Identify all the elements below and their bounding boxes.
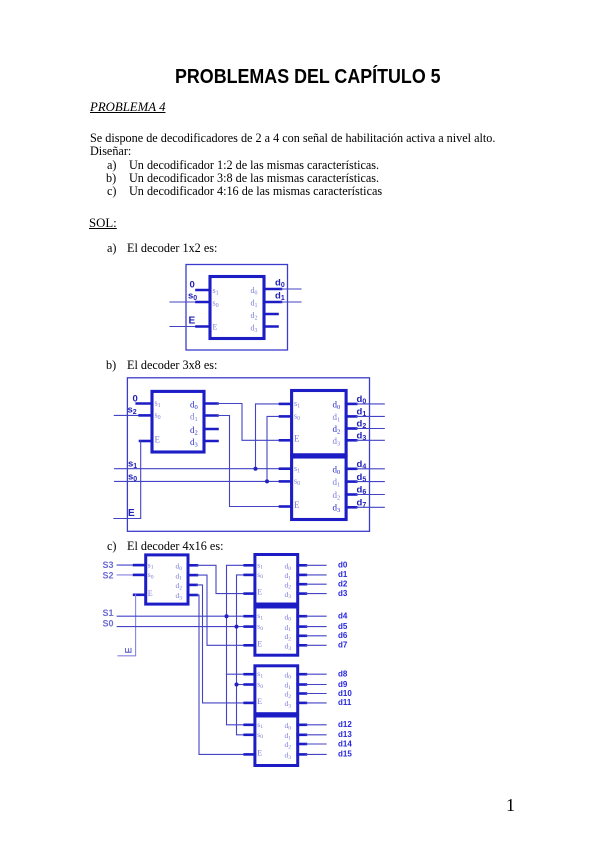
list item c xyxy=(107,184,116,199)
U2 pin s1 stub xyxy=(137,402,152,405)
wire S1 vertical tap xyxy=(227,565,245,725)
U6 pin d0 stub xyxy=(298,564,306,567)
U3 pin d0 stub xyxy=(346,403,356,406)
U7 pin s1 stub xyxy=(245,615,255,618)
U4 pin E stub xyxy=(280,505,292,508)
wire output d6 xyxy=(306,635,326,637)
decoder U5 body xyxy=(146,555,188,604)
svg-text:0: 0 xyxy=(190,280,195,291)
U9 pin d0 stub xyxy=(298,723,306,726)
U9 pin d1 stub xyxy=(298,733,306,736)
U8 pin s1 stub xyxy=(245,673,255,676)
U9 pin d3 stub xyxy=(298,753,306,756)
svg-text:S1: S1 xyxy=(103,608,114,618)
wire output d6 xyxy=(356,494,384,496)
wire s0 input xyxy=(170,301,197,303)
wire d1 output xyxy=(281,301,301,303)
decoder U7 body xyxy=(255,607,298,655)
paragraph line 2 xyxy=(90,144,131,159)
U8 pin E stub xyxy=(245,702,255,705)
decoder U1 body xyxy=(210,277,264,339)
wire E input xyxy=(170,326,197,328)
caption b xyxy=(106,358,116,373)
svg-text:E: E xyxy=(124,647,134,653)
wire s0 bus xyxy=(115,480,280,482)
U7 pin d0 stub xyxy=(298,615,306,618)
svg-text:d12: d12 xyxy=(338,720,352,729)
svg-text:d7: d7 xyxy=(338,641,348,650)
svg-text:E: E xyxy=(213,323,218,332)
U3 pin E stub xyxy=(280,439,292,442)
svg-text:E: E xyxy=(257,749,262,758)
U5 pin d0 stub xyxy=(188,564,197,567)
U1 pin d1 stub xyxy=(264,301,281,304)
U4 pin d1 stub xyxy=(346,480,356,483)
wire S3 input xyxy=(117,564,136,566)
wire s1 tap to U3 xyxy=(256,404,281,469)
U4 pin s1 stub xyxy=(280,467,292,470)
wire S0 vertical tap xyxy=(237,575,245,735)
U2 pin s0 stub xyxy=(140,414,152,417)
wire output d14 xyxy=(306,743,326,745)
svg-text:s0: s0 xyxy=(128,472,137,484)
svg-text:s2: s2 xyxy=(128,405,137,417)
U3 pin d3 stub xyxy=(346,439,356,442)
wire output d5 xyxy=(306,626,326,628)
U7 pin d2 stub xyxy=(298,634,306,637)
U1 pin d3 stub xyxy=(264,325,278,328)
U4 pin d2 stub xyxy=(346,493,356,496)
wire output d3 xyxy=(356,439,384,441)
svg-text:E: E xyxy=(257,639,262,648)
wire output d7 xyxy=(356,506,384,508)
U9 pin s0 stub xyxy=(245,733,255,736)
U5 pin d2 stub xyxy=(188,584,197,587)
svg-text:S0: S0 xyxy=(103,618,114,628)
decoder U4 body xyxy=(292,457,347,520)
junction s0 tap xyxy=(265,479,269,483)
U5 pin d1 stub xyxy=(188,574,197,577)
U3 pin s1 stub xyxy=(280,403,292,406)
svg-text:d7: d7 xyxy=(357,498,367,510)
U8 pin s0 stub xyxy=(245,683,255,686)
svg-text:E: E xyxy=(155,434,161,444)
svg-text:E: E xyxy=(148,589,153,598)
wire output d1 xyxy=(306,574,326,576)
wire output d3 xyxy=(306,593,326,595)
svg-text:d14: d14 xyxy=(338,739,352,748)
wire output d9 xyxy=(306,684,326,686)
U5 pin s0 stub xyxy=(134,574,146,577)
U7 pin d1 stub xyxy=(298,625,306,628)
enclosure box (diagram a) xyxy=(186,265,288,351)
U6 pin d2 stub xyxy=(298,583,306,586)
U8 pin d2 stub xyxy=(298,692,306,695)
paragraph line 1 xyxy=(90,131,495,146)
wire output d13 xyxy=(306,734,326,736)
U3 pin s0 stub xyxy=(280,415,292,418)
decoder U8 body xyxy=(255,666,298,714)
U4 pin d0 stub xyxy=(346,467,356,470)
svg-text:E: E xyxy=(294,500,300,510)
wire S1 branch to U8 xyxy=(227,673,245,675)
wire output d12 xyxy=(306,724,326,726)
U5 pin d3 stub xyxy=(188,594,197,597)
svg-text:d2: d2 xyxy=(357,419,367,431)
list item b xyxy=(106,171,116,186)
U5 pin s1 stub xyxy=(134,564,146,567)
wire output d8 xyxy=(306,673,326,675)
svg-text:E: E xyxy=(189,316,196,327)
svg-text:s1: s1 xyxy=(128,459,137,471)
wire s2 input xyxy=(114,414,140,416)
wire E riser xyxy=(114,441,141,519)
U4 pin s0 stub xyxy=(280,480,292,483)
svg-text:E: E xyxy=(294,434,300,444)
svg-text:d4: d4 xyxy=(357,459,367,471)
wire s0 tap to U3 xyxy=(267,416,280,481)
svg-text:0: 0 xyxy=(133,394,138,405)
wire output d0 xyxy=(306,564,326,566)
wire d0 output xyxy=(281,288,301,290)
U6 pin s1 stub xyxy=(245,564,255,567)
svg-text:S3: S3 xyxy=(103,560,114,570)
U2 pin d1 stub xyxy=(204,414,218,417)
svg-text:d6: d6 xyxy=(338,631,348,640)
wire S2 input xyxy=(117,574,136,576)
svg-text:d0: d0 xyxy=(357,394,367,406)
U3 pin d1 stub xyxy=(346,415,356,418)
U1 pin s1 stub xyxy=(197,289,211,292)
U7 pin d3 stub xyxy=(298,644,306,647)
svg-text:E: E xyxy=(257,588,262,597)
wire S0 bus xyxy=(117,626,245,628)
U2 pin d2 stub xyxy=(204,428,218,431)
U6 pin s0 stub xyxy=(245,574,255,577)
U3 pin d2 stub xyxy=(346,427,356,430)
svg-text:d1: d1 xyxy=(357,407,367,419)
decoder U9 body xyxy=(255,716,298,766)
wire U5.d1 to U7.E xyxy=(197,575,245,645)
svg-text:d3: d3 xyxy=(338,589,348,598)
caption a xyxy=(107,241,116,256)
svg-text:d10: d10 xyxy=(338,689,352,698)
junction S1 bus xyxy=(225,614,229,618)
decoder U3 body xyxy=(292,391,347,455)
U5 pin E stub xyxy=(134,593,146,596)
svg-text:d3: d3 xyxy=(357,431,367,443)
U6 pin d1 stub xyxy=(298,574,306,577)
svg-text:d5: d5 xyxy=(338,622,348,631)
svg-text:d0: d0 xyxy=(275,278,285,290)
svg-text:s0: s0 xyxy=(188,291,197,303)
caption c xyxy=(107,539,116,554)
wire E riser xyxy=(118,595,136,656)
wire S1 bus xyxy=(117,615,245,617)
U6 pin E stub xyxy=(245,592,255,595)
U1 pin s0 stub xyxy=(197,301,211,304)
SOL heading xyxy=(89,216,117,231)
decoder U2 body xyxy=(152,391,204,452)
wire U5.d3 to U9.E xyxy=(197,595,245,754)
junction S0 branch U8 xyxy=(235,683,239,687)
U6 pin d3 stub xyxy=(298,592,306,595)
wire S0 branch to U8 xyxy=(237,684,245,686)
U8 pin d0 stub xyxy=(298,673,306,676)
page title xyxy=(175,66,441,89)
wire output d15 xyxy=(306,753,326,755)
wire output d7 xyxy=(306,644,326,646)
svg-text:d9: d9 xyxy=(338,680,348,689)
wire U5.d2 to U8.E xyxy=(197,585,245,703)
wire output d10 xyxy=(306,693,326,695)
svg-text:d11: d11 xyxy=(338,698,352,707)
U9 pin E stub xyxy=(245,753,255,756)
page number xyxy=(506,795,515,816)
list item a xyxy=(107,158,116,173)
svg-text:d6: d6 xyxy=(357,485,367,497)
U1 pin d2 stub xyxy=(264,313,278,316)
wire output d5 xyxy=(356,481,384,483)
svg-text:S2: S2 xyxy=(103,570,114,580)
decoder U6 body xyxy=(255,555,298,605)
svg-text:d1: d1 xyxy=(275,291,285,303)
svg-text:d15: d15 xyxy=(338,750,352,759)
junction S0 bus xyxy=(235,625,239,629)
U2 pin E stub xyxy=(140,440,152,443)
svg-text:d8: d8 xyxy=(338,670,348,679)
U1 pin E stub xyxy=(197,325,211,328)
svg-text:E: E xyxy=(128,508,135,519)
U9 pin s1 stub xyxy=(245,723,255,726)
U9 pin d2 stub xyxy=(298,743,306,746)
wire U2.d1 to U4.E xyxy=(218,416,281,507)
wire output d11 xyxy=(306,702,326,704)
U8 pin d1 stub xyxy=(298,683,306,686)
svg-text:d4: d4 xyxy=(338,612,348,621)
heading PROBLEMA 4 xyxy=(90,100,165,115)
U2 pin d0 stub xyxy=(204,402,218,405)
wire output d1 xyxy=(356,415,384,417)
svg-text:d5: d5 xyxy=(357,472,367,484)
wire output d4 xyxy=(356,468,384,470)
svg-text:d1: d1 xyxy=(338,570,348,579)
U7 pin E stub xyxy=(245,644,255,647)
junction s1 tap xyxy=(254,467,258,471)
wire output d0 xyxy=(356,403,384,405)
U7 pin s0 stub xyxy=(245,625,255,628)
svg-text:E: E xyxy=(257,697,262,706)
enclosure box (diagram b) xyxy=(127,378,369,532)
U1 pin d0 stub xyxy=(264,288,281,291)
U2 pin d3 stub xyxy=(204,440,218,443)
svg-text:d13: d13 xyxy=(338,730,352,739)
U4 pin d3 stub xyxy=(346,506,356,509)
svg-text:d2: d2 xyxy=(338,580,348,589)
wire U2.d0 to U3.E xyxy=(218,404,281,441)
wire output d2 xyxy=(306,583,326,585)
wire output d4 xyxy=(306,615,326,617)
wire output d2 xyxy=(356,428,384,430)
U8 pin d3 stub xyxy=(298,702,306,705)
svg-text:d0: d0 xyxy=(338,561,348,570)
wire s1 bus xyxy=(115,468,280,470)
wire U5.d0 to U6.E xyxy=(197,565,245,593)
